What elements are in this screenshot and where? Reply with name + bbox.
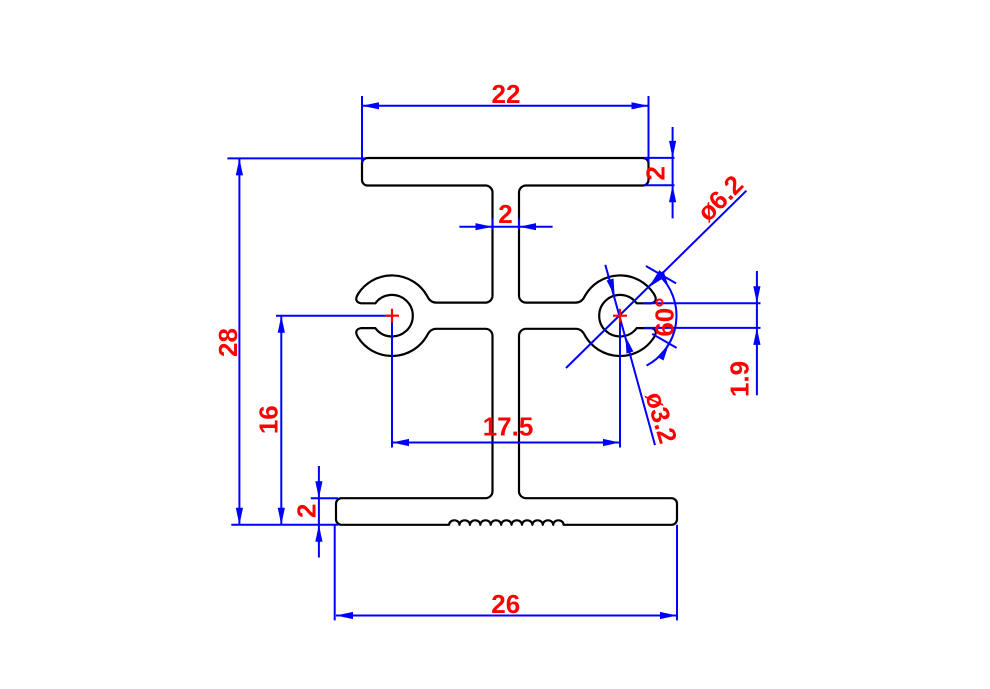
svg-text:2: 2 bbox=[498, 199, 512, 229]
svg-text:60°: 60° bbox=[650, 297, 680, 336]
center mark: left clip center cross bbox=[385, 309, 399, 323]
diameter dimension ø6.2: clip outer circle, 45° leader bbox=[566, 169, 749, 368]
svg-text:ø3.2: ø3.2 bbox=[639, 388, 683, 447]
dimension 2: bottom flange thickness, left side bbox=[292, 466, 339, 558]
svg-text:22: 22 bbox=[492, 79, 521, 109]
svg-text:26: 26 bbox=[491, 589, 520, 619]
svg-text:2: 2 bbox=[292, 504, 322, 518]
svg-text:28: 28 bbox=[213, 328, 243, 357]
diameter dimension ø3.2: clip inner hole, steep leader bbox=[605, 265, 683, 447]
dimension 2: web thickness bbox=[459, 199, 552, 230]
svg-text:16: 16 bbox=[253, 405, 283, 434]
center mark: right clip center cross bbox=[613, 309, 627, 323]
H-profile extrusion outline (top flange, web, side clip arms, bottom flange with knurled serrations) bbox=[336, 158, 677, 525]
dimension 16: clip axis height above bottom bbox=[253, 316, 394, 525]
angular dimension 60°: clip slot opening angle, arc with side lines bbox=[646, 266, 680, 366]
svg-text:ø6.2: ø6.2 bbox=[691, 169, 749, 227]
svg-text:1.9: 1.9 bbox=[725, 361, 755, 397]
dimension 26: bottom flange width bbox=[335, 525, 677, 621]
dimension 17.5: distance between clip centers bbox=[392, 319, 620, 448]
dimension 1.9: clip slot opening height bbox=[644, 271, 761, 397]
svg-text:17.5: 17.5 bbox=[483, 412, 534, 442]
dimension 22: top flange width, dim line with extension lines bbox=[362, 79, 649, 163]
svg-text:2: 2 bbox=[641, 166, 671, 180]
dimension 2: top flange thickness, right side bbox=[641, 127, 677, 218]
dimension 28: overall profile height, left side bbox=[213, 158, 365, 524]
